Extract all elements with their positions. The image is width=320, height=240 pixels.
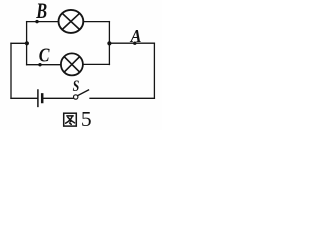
svg-text:A: A — [130, 26, 142, 46]
wire battery to switch — [44, 97, 73, 99]
wire node A segment — [109, 42, 154, 44]
wire lamp2 right lead — [83, 63, 110, 65]
junction dot left — [25, 41, 29, 45]
lamp L1 — [59, 10, 84, 33]
lamp L2 — [61, 53, 83, 75]
wire lamp1 right lead — [83, 21, 109, 23]
wire switch to right corner — [90, 97, 154, 99]
wire right rail — [153, 43, 155, 98]
wire lamp2 left lead — [27, 64, 61, 66]
svg-text:B: B — [35, 0, 47, 23]
switch S lever — [78, 90, 89, 96]
svg-text:C: C — [39, 44, 51, 66]
wire bottom left segment — [11, 97, 37, 99]
wire left rail — [10, 43, 12, 98]
wire left branch vertical — [26, 22, 28, 65]
battery short plate — [41, 94, 44, 102]
node A dot — [133, 42, 136, 45]
wire lamp1 left lead — [27, 21, 59, 23]
wire right branch vertical — [108, 22, 110, 65]
junction dot right — [107, 41, 111, 45]
node B dot — [35, 20, 38, 23]
caption glyph tu (figure) — [64, 113, 77, 126]
switch S pivot circle — [74, 95, 78, 99]
svg-text:S: S — [73, 78, 80, 96]
wire left rail link — [11, 42, 27, 44]
node C dot — [38, 63, 41, 66]
battery long plate — [37, 90, 39, 106]
svg-text:5: 5 — [81, 107, 92, 130]
